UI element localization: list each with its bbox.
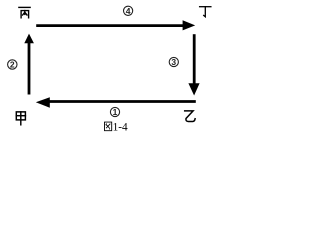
svg-text:2: 2 [10,60,15,70]
svg-text:3: 3 [171,57,176,67]
svg-text:1: 1 [113,107,118,117]
svg-text:1-4: 1-4 [113,121,128,133]
svg-text:4: 4 [126,6,131,16]
